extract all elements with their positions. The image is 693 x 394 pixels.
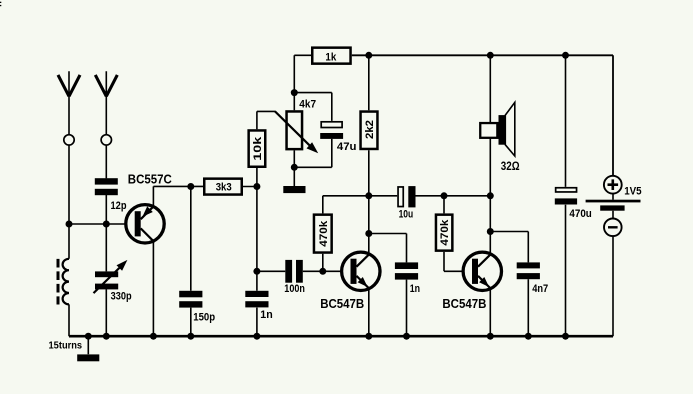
svg-text:4n7: 4n7	[532, 283, 548, 295]
svg-text:12p: 12p	[111, 200, 127, 212]
svg-text:3k3: 3k3	[216, 181, 232, 193]
svg-text:47u: 47u	[337, 141, 357, 153]
svg-text:470k: 470k	[439, 219, 451, 246]
svg-text:10u: 10u	[399, 209, 414, 221]
svg-text:150p: 150p	[193, 311, 215, 323]
svg-text:1n: 1n	[410, 283, 420, 295]
svg-text:470k: 470k	[318, 220, 330, 247]
svg-text:BC557C: BC557C	[128, 171, 172, 186]
svg-text:4k7: 4k7	[299, 99, 316, 111]
svg-text:330p: 330p	[111, 290, 132, 302]
svg-text:1k: 1k	[325, 51, 337, 63]
svg-text:10k: 10k	[252, 136, 264, 161]
svg-text:2k2: 2k2	[364, 120, 376, 139]
svg-text:1n: 1n	[260, 309, 272, 321]
svg-text:15turns: 15turns	[49, 340, 83, 351]
svg-text:470u: 470u	[569, 208, 591, 220]
svg-text:100n: 100n	[284, 283, 305, 295]
svg-text:1V5: 1V5	[624, 186, 641, 198]
svg-text:32Ω: 32Ω	[501, 159, 520, 173]
svg-text:BC547B: BC547B	[442, 296, 486, 311]
svg-text:BC547B: BC547B	[320, 296, 364, 311]
